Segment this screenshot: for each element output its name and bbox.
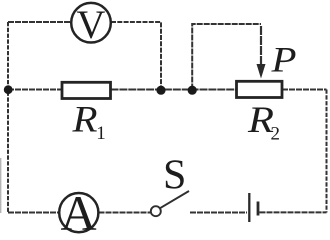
ammeter A circle <box>59 193 98 232</box>
wire top right of voltmeter <box>111 22 161 87</box>
resistor R1 <box>62 82 111 98</box>
wire bottom switch-battery segment <box>190 212 247 214</box>
wire potentiometer bypass <box>192 24 261 90</box>
voltmeter V circle <box>71 3 111 43</box>
wire bottom ammeter-switch segment <box>99 212 151 214</box>
svg-text:S: S <box>163 153 186 199</box>
wiper arrowhead P <box>257 64 266 79</box>
wire right vertical <box>326 90 328 213</box>
svg-text:1: 1 <box>96 123 106 144</box>
svg-text:R: R <box>71 100 97 141</box>
scan streak left edge <box>0 158 2 213</box>
wire middle right segment <box>282 89 327 91</box>
node A left junction <box>4 85 13 94</box>
switch S contact circle <box>151 206 161 216</box>
wire bottom left segment <box>8 212 59 214</box>
node C junction bypass <box>188 86 197 95</box>
svg-text:P: P <box>270 40 296 80</box>
wire left vertical <box>7 22 9 212</box>
wire middle center segment <box>111 89 237 91</box>
node B junction under voltmeter <box>156 86 165 95</box>
switch S blade <box>160 191 189 208</box>
svg-text:V: V <box>77 2 106 47</box>
battery short plate <box>257 202 260 216</box>
svg-text:2: 2 <box>271 124 281 145</box>
rheostat R2 <box>237 81 283 97</box>
svg-text:A: A <box>60 185 96 234</box>
wire middle left segment <box>8 89 62 91</box>
wire top left horizontal <box>8 21 70 23</box>
battery long plate <box>248 193 250 222</box>
wire bottom battery-right segment <box>260 211 327 213</box>
wiper arrow shaft P <box>260 26 262 66</box>
